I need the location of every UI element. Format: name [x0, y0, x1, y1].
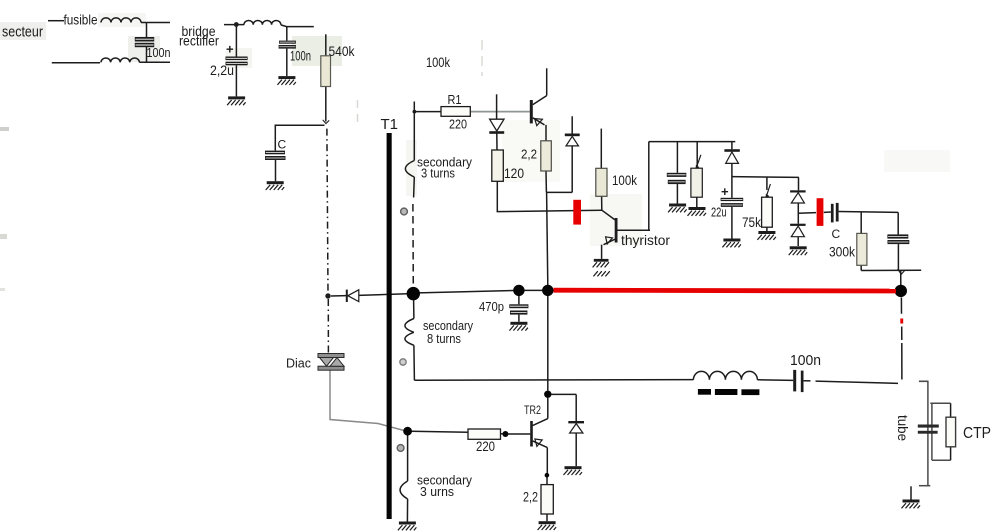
svg-text:C: C	[278, 138, 287, 152]
svg-text:120: 120	[504, 165, 524, 181]
svg-text:C: C	[832, 227, 841, 241]
svg-text:Diac: Diac	[286, 356, 311, 371]
svg-text:8 turns: 8 turns	[427, 331, 461, 346]
svg-text:+: +	[721, 184, 729, 199]
svg-text:100k: 100k	[612, 173, 637, 188]
svg-text:2,2: 2,2	[523, 489, 538, 505]
svg-text:75k: 75k	[742, 215, 761, 230]
svg-text:2,2u: 2,2u	[210, 62, 234, 78]
svg-text:540k: 540k	[329, 43, 356, 59]
svg-text:100n: 100n	[790, 352, 821, 369]
svg-text:TR2: TR2	[524, 405, 541, 417]
svg-text:CTP: CTP	[963, 425, 991, 442]
svg-text:tube: tube	[895, 415, 911, 441]
svg-text:3 turns: 3 turns	[421, 166, 455, 181]
svg-text:22u: 22u	[711, 205, 727, 220]
svg-text:R1: R1	[448, 92, 462, 107]
svg-text:thyristor: thyristor	[621, 232, 670, 248]
svg-text:220: 220	[476, 438, 495, 454]
svg-text:secteur: secteur	[2, 24, 43, 41]
svg-text:2,2: 2,2	[521, 147, 537, 162]
svg-text:300k: 300k	[829, 245, 855, 260]
svg-text:T1: T1	[381, 116, 399, 133]
svg-text:100k: 100k	[426, 54, 451, 70]
svg-text:470p: 470p	[479, 299, 504, 314]
svg-text:rectifier: rectifier	[179, 33, 219, 49]
svg-text:100n: 100n	[290, 48, 311, 64]
svg-text:220: 220	[449, 117, 467, 132]
svg-text:fusible: fusible	[64, 12, 98, 28]
svg-text:+: +	[226, 42, 234, 57]
svg-text:3 urns: 3 urns	[420, 484, 454, 499]
svg-text:100n: 100n	[147, 45, 171, 60]
